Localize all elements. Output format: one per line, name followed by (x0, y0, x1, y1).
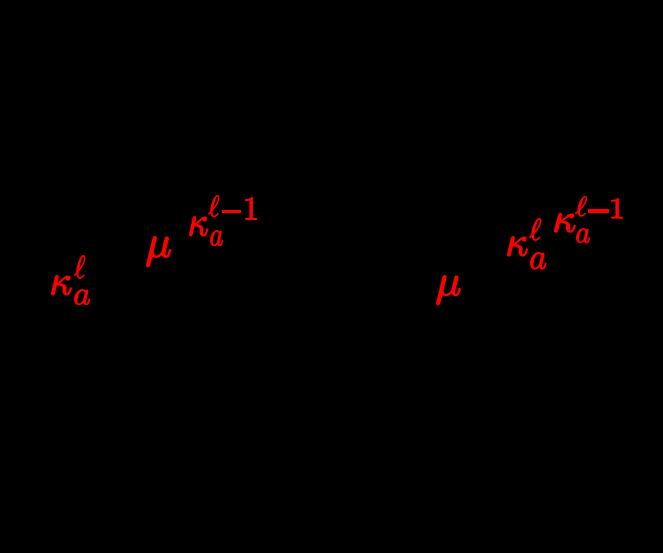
subscript a of right label kappa_a^ell (530, 252, 547, 270)
kappa of right label kappa_a^(ell-1) (554, 213, 576, 233)
superscript ell of right label kappa_a^ell (529, 218, 541, 241)
kappa of left label kappa_a^(ell-1) (189, 216, 208, 237)
glyph outline definitions (Computer Modern shapes) (0, 0, 28, 28)
mu of right label (436, 275, 461, 305)
subscript a of left label kappa_a^ell (74, 289, 90, 305)
subscript a of right label kappa_a^(ell-1) (576, 228, 590, 243)
superscript minus sign of right label kappa_a^(ell-1) (588, 209, 609, 213)
mu of left label (146, 236, 171, 267)
superscript ell of right label kappa_a^(ell-1) (575, 196, 587, 217)
subscript a of left label kappa_a^(ell-1) (210, 230, 223, 246)
kappa of right label kappa_a^ell (507, 236, 528, 257)
superscript minus sign of left label kappa_a^(ell-1) (222, 210, 242, 214)
superscript ell of left label kappa_a^ell (74, 255, 85, 279)
superscript digit 1 of left label kappa_a^(ell-1) (245, 197, 257, 220)
superscript digit 1 of right label kappa_a^(ell-1) (611, 198, 623, 219)
superscript ell of left label kappa_a^(ell-1) (208, 195, 220, 217)
kappa of left label kappa_a^ell (51, 275, 72, 296)
